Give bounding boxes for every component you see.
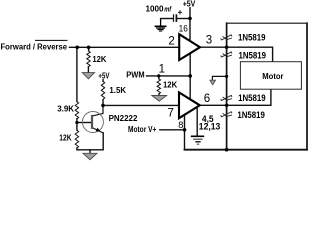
svg-text:12K: 12K [92,54,107,64]
svg-text:1000: 1000 [146,5,164,14]
svg-text:Motor V+: Motor V+ [128,124,156,134]
svg-text:1N5819: 1N5819 [238,92,266,103]
svg-text:1N5819: 1N5819 [238,31,266,42]
svg-text:2: 2 [168,35,174,47]
svg-text:1: 1 [159,64,165,76]
svg-text:12K: 12K [59,132,72,142]
svg-text:7: 7 [168,108,174,120]
svg-text:+5V: +5V [183,0,196,9]
svg-text:1N5819: 1N5819 [239,50,267,61]
svg-text:12K: 12K [163,80,178,90]
svg-text:Motor: Motor [262,71,284,81]
svg-text:3: 3 [206,35,212,47]
svg-text:+5V: +5V [98,71,109,81]
svg-text:12,13: 12,13 [199,120,221,131]
svg-text:1.5K: 1.5K [109,85,126,95]
svg-text:PWM: PWM [126,69,144,79]
svg-text:PN2222: PN2222 [109,113,138,123]
svg-text:6: 6 [204,93,210,105]
svg-text:mf: mf [164,5,172,14]
svg-text:8: 8 [178,120,183,130]
svg-text:16: 16 [179,24,188,34]
svg-text:3.9K: 3.9K [57,104,75,114]
svg-text:Forward / Reverse: Forward / Reverse [1,41,68,51]
svg-text:1N5819: 1N5819 [237,109,265,120]
